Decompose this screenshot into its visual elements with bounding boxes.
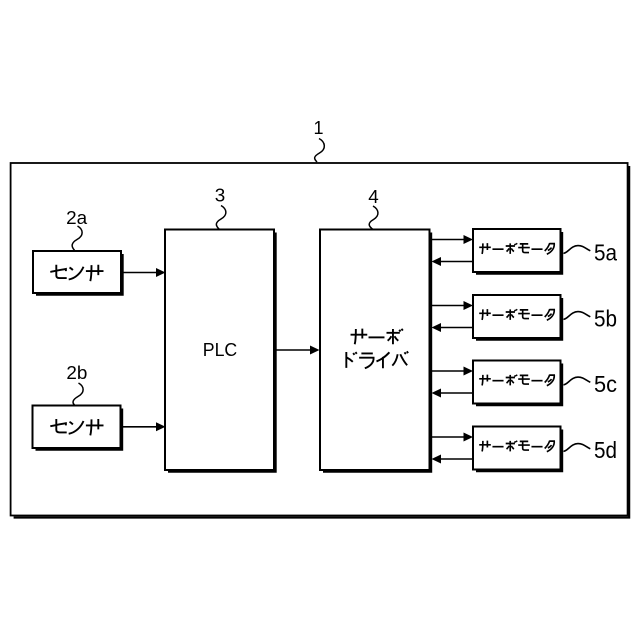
svg-text:2a: 2a xyxy=(66,208,88,228)
svg-text:2b: 2b xyxy=(66,363,87,383)
svg-text:PLC: PLC xyxy=(203,339,238,360)
svg-text:5b: 5b xyxy=(594,306,617,332)
svg-text:5d: 5d xyxy=(594,437,617,463)
svg-text:5a: 5a xyxy=(594,240,618,266)
svg-text:1: 1 xyxy=(313,118,323,138)
svg-text:3: 3 xyxy=(215,185,226,206)
svg-text:4: 4 xyxy=(368,186,379,207)
svg-text:5c: 5c xyxy=(594,371,617,397)
